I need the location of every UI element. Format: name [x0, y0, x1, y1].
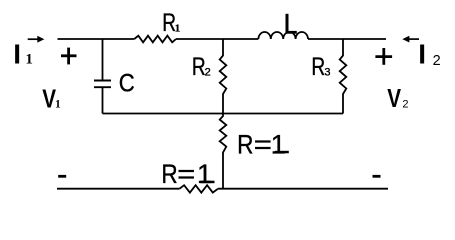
- wire top-middle segment: [176, 38, 258, 40]
- inductor L: [258, 32, 308, 39]
- label L: [286, 14, 297, 34]
- svg-text:V: V: [387, 83, 401, 113]
- svg-text:I: I: [13, 39, 21, 70]
- minus sign right: [373, 175, 381, 178]
- svg-text:C: C: [119, 70, 135, 98]
- svg-text:R: R: [311, 53, 325, 81]
- resistor R=1 vertical: [220, 114, 227, 189]
- svg-text:1: 1: [25, 52, 33, 68]
- svg-text:1: 1: [55, 98, 61, 110]
- capacitor C: [94, 39, 111, 114]
- resistor R1: [134, 36, 176, 43]
- wire top-left segment: [58, 38, 135, 40]
- svg-text:R: R: [237, 129, 253, 159]
- wire bottom-right segment: [218, 188, 388, 190]
- svg-text:I: I: [418, 39, 426, 70]
- resistor R2: [220, 39, 227, 114]
- arrow I2 (current direction, points left): [402, 36, 419, 43]
- svg-text:=: =: [254, 129, 272, 159]
- resistor R3: [340, 39, 347, 114]
- arrow I1 (current direction, points right): [28, 36, 45, 43]
- svg-text:2: 2: [433, 53, 441, 69]
- svg-text:2: 2: [205, 67, 211, 79]
- plus sign right: [375, 48, 392, 65]
- resistor R=1 horizontal: [180, 185, 219, 192]
- wire top-right segment: [308, 38, 386, 40]
- wire middle-bottom: [103, 113, 344, 115]
- plus sign left: [61, 48, 77, 65]
- wire bottom-left segment: [57, 188, 180, 190]
- svg-text:=: =: [177, 159, 195, 189]
- svg-text:3: 3: [324, 67, 330, 79]
- svg-text:1: 1: [271, 129, 286, 159]
- svg-text:1: 1: [197, 159, 212, 189]
- svg-text:R: R: [161, 159, 177, 189]
- svg-text:1: 1: [175, 23, 181, 35]
- minus sign left: [58, 175, 66, 178]
- svg-text:2: 2: [402, 99, 408, 111]
